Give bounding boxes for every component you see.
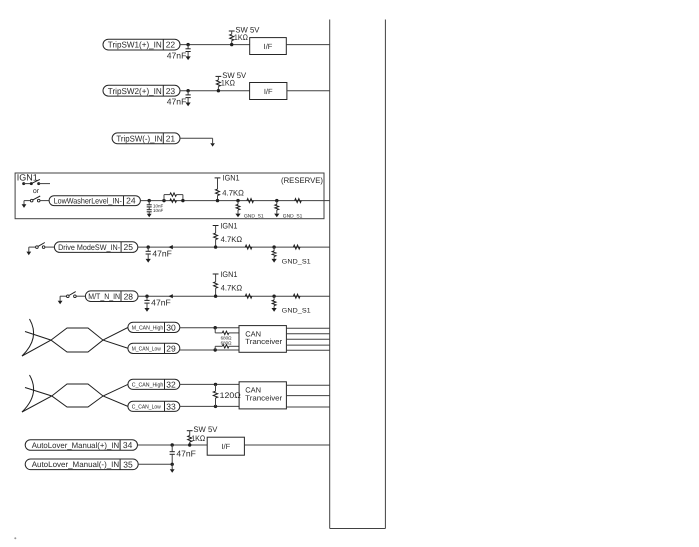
resistor R5 series — [247, 199, 254, 203]
svg-text:10nF: 10nF — [153, 208, 164, 213]
ground (S3) — [26, 247, 31, 255]
switch S1 (IGN1 alternative) — [22, 179, 50, 185]
resistor R4 pulldown GND_S1 — [235, 201, 263, 220]
op-amp U4 CAN Tranceiver — [239, 382, 286, 409]
wire U4 out 3 — [286, 406, 329, 408]
wire MTN main — [138, 295, 330, 297]
switch S3 Drive Mode — [29, 243, 55, 249]
svg-text:47nF: 47nF — [176, 449, 196, 459]
svg-text:1KΩ: 1KΩ — [234, 33, 248, 42]
node junction R14 — [272, 295, 275, 298]
wire AutoLover+ to I/F — [138, 444, 208, 446]
capacitor C5 47nF — [144, 296, 170, 312]
wire AutoLover- — [138, 463, 172, 465]
capacitor C1 47nF — [167, 45, 191, 61]
power IGN1 (row5) — [213, 221, 238, 247]
connector pin 28 M/T_N_IN — [85, 291, 138, 302]
node junction C6 bottom — [171, 463, 174, 466]
resistor R17 680 (low branch) — [215, 345, 239, 350]
wire M_CAN_Low to transceiver — [180, 349, 239, 351]
flow arrow (row5) — [168, 245, 172, 249]
node junction C6 top — [171, 443, 174, 446]
capacitor C4 47nF — [146, 247, 172, 263]
op-amp U5 I/F — [207, 437, 244, 455]
svg-text:4.7KΩ: 4.7KΩ — [221, 235, 243, 244]
svg-text:21: 21 — [166, 133, 176, 143]
svg-text:32: 32 — [166, 379, 176, 389]
wire TripSW(-) stub — [180, 138, 213, 143]
resistor R16 680 (high branch) — [215, 328, 239, 335]
wire LowWasherLevel main — [140, 200, 324, 202]
svg-text:IGN1: IGN1 — [17, 173, 38, 183]
svg-text:23: 23 — [166, 86, 176, 96]
connector pin 24 LowWasherLevel_IN- — [49, 196, 140, 206]
svg-text:30: 30 — [166, 322, 176, 332]
node junction C_high — [214, 383, 217, 386]
svg-text:1KΩ: 1KΩ — [191, 434, 205, 443]
svg-text:GND_S1: GND_S1 — [282, 308, 311, 315]
ECU connector block bottom edge — [330, 528, 386, 530]
node junction C_low — [214, 405, 217, 408]
connector pin 25 Drive ModeSW_IN- — [54, 242, 137, 253]
resistor pair parallel — [162, 193, 184, 202]
resistor R18 120 termination — [213, 384, 240, 406]
stray mark — [14, 537, 16, 539]
wire I/F5 to ECU — [244, 444, 329, 446]
svg-text:35: 35 — [123, 459, 133, 469]
wire DriveMode main — [138, 246, 330, 248]
connector pin 23 TripSW2(+)_IN — [103, 85, 180, 96]
svg-text:SW 5V: SW 5V — [193, 425, 218, 434]
svg-text:Tranceiver: Tranceiver — [245, 393, 283, 402]
connector pin 32 C_CAN_High — [128, 379, 180, 389]
svg-text:I/F: I/F — [221, 442, 230, 451]
capacitor C6 47nF — [170, 445, 196, 464]
ECU connector block right edge — [384, 20, 386, 529]
connector pin 34 AutoLover_Manual(+)_IN — [25, 440, 137, 451]
node junction R12 — [214, 295, 217, 298]
connector pin 21 TripSW(-)_IN — [112, 133, 180, 144]
svg-text:47nF: 47nF — [167, 50, 187, 60]
node junction R1 — [230, 43, 233, 46]
svg-text:33: 33 — [166, 401, 176, 411]
resistor R15 series — [293, 294, 300, 298]
wire C_CAN_High to transceiver — [180, 383, 239, 385]
op-amp U3 CAN Tranceiver — [239, 326, 286, 353]
wire U3 out 2 — [286, 333, 329, 335]
op-amp U2 I/F — [250, 83, 287, 100]
power SW 5V (row1) — [229, 25, 260, 44]
ground (S4) — [58, 296, 63, 304]
svg-text:C_CAN_High: C_CAN_High — [132, 381, 164, 388]
resistor R10 pulldown GND_S1 — [272, 247, 312, 265]
wire C_CAN_Low to transceiver — [180, 405, 239, 407]
resistor R2 1K — [221, 79, 235, 88]
svg-text:M/T_N_IN: M/T_N_IN — [88, 292, 120, 301]
op-amp U1 I/F — [250, 38, 287, 55]
node junction R10 — [272, 245, 275, 248]
connector pin 30 M_CAN_High — [128, 322, 180, 332]
svg-text:C_CAN_Low: C_CAN_Low — [132, 403, 162, 410]
wire reserve to ECU — [324, 200, 330, 202]
block frame (RESERVE) — [15, 173, 324, 219]
svg-text:TripSW1(+)_IN: TripSW1(+)_IN — [108, 40, 162, 50]
wire U4 out 1 — [286, 384, 329, 386]
net label IGN1 (box corner) — [17, 173, 38, 183]
label or — [33, 188, 40, 195]
connector pin 33 C_CAN_Low — [128, 401, 180, 411]
svg-text:M_CAN_High: M_CAN_High — [132, 324, 164, 331]
resistor R6 pulldown GND_S1 — [274, 201, 302, 220]
node junction C2 — [186, 89, 189, 92]
svg-text:LowWasherLevel_IN-: LowWasherLevel_IN- — [54, 196, 123, 205]
power SW 5V (row9) — [187, 425, 218, 445]
resistor R1 1K — [234, 33, 248, 42]
node junction R19 — [188, 443, 191, 446]
resistor R9 series — [245, 245, 252, 249]
svg-text:4.7KΩ: 4.7KΩ — [221, 284, 243, 293]
node junction C1 — [186, 43, 189, 46]
wire M_CAN_High to transceiver — [180, 327, 239, 329]
svg-text:680Ω: 680Ω — [221, 340, 233, 345]
wire TripSW1 to I/F — [180, 44, 250, 46]
wire twisted pair B (M_CAN) — [22, 328, 128, 356]
wire U3 out 4 — [286, 344, 329, 346]
svg-text:47nF: 47nF — [167, 96, 187, 106]
resistor R8 4.7K — [221, 235, 243, 244]
svg-text:1KΩ: 1KΩ — [221, 79, 235, 88]
svg-text:IGN1: IGN1 — [220, 221, 238, 230]
wire U3 out 3 — [286, 338, 329, 340]
connector pin 29 M_CAN_Low — [128, 343, 180, 353]
node junction R6 — [275, 199, 278, 202]
capacitor C2 47nF — [167, 91, 191, 107]
node junction M_high — [214, 326, 217, 329]
svg-text:TripSW(-)_IN: TripSW(-)_IN — [116, 133, 162, 143]
node junction R3 — [216, 199, 219, 202]
svg-text:Tranceiver: Tranceiver — [245, 337, 283, 346]
svg-text:(RESERVE): (RESERVE) — [281, 176, 323, 185]
svg-text:25: 25 — [124, 242, 134, 252]
node junction R4 — [236, 199, 239, 202]
svg-text:GND_S1: GND_S1 — [282, 258, 311, 265]
power IGN1 (reserve) — [215, 174, 241, 201]
ground arrow (row9) — [170, 464, 175, 473]
node junction C3 — [148, 199, 151, 202]
resistor R12 4.7K — [221, 284, 243, 293]
wire twisted pair A (M_CAN) — [25, 328, 128, 353]
svg-text:GND_S1: GND_S1 — [244, 213, 264, 219]
connector pin 35 AutoLover_Manual(-)_IN — [25, 459, 138, 470]
svg-text:Drive ModeSW_IN-: Drive ModeSW_IN- — [58, 243, 120, 252]
wire U3 out 5 — [286, 349, 329, 351]
label 680 ohm x2 — [221, 336, 233, 346]
svg-text:TripSW2(+)_IN: TripSW2(+)_IN — [108, 86, 162, 96]
svg-text:4.7KΩ: 4.7KΩ — [222, 188, 244, 197]
capacitor C3 10nF stack — [147, 201, 164, 218]
twisted pair arc (M_CAN) — [22, 319, 34, 356]
resistor R3 4.7K — [222, 188, 244, 197]
label (RESERVE) — [281, 176, 323, 185]
svg-text:47nF: 47nF — [152, 248, 172, 258]
svg-text:I/F: I/F — [264, 87, 273, 96]
svg-text:I/F: I/F — [264, 42, 273, 51]
node junction R2 — [217, 89, 220, 92]
svg-text:M_CAN_Low: M_CAN_Low — [132, 345, 162, 352]
resistor R14 pulldown GND_S1 — [272, 296, 312, 314]
node junction C5 — [145, 295, 148, 298]
wire U3 out 1 — [286, 327, 329, 329]
resistor R19 1K — [191, 434, 205, 443]
svg-text:120Ω: 120Ω — [220, 391, 241, 400]
wire U4 out 2 — [286, 395, 329, 397]
connector pin 22 TripSW1(+)_IN — [103, 39, 180, 50]
svg-text:47nF: 47nF — [151, 297, 171, 307]
flow arrow (row6) — [168, 294, 172, 298]
node junction M_low — [214, 348, 217, 351]
svg-text:29: 29 — [166, 343, 176, 353]
svg-text:34: 34 — [123, 440, 133, 450]
ground arrow (row3) — [210, 143, 215, 146]
wire I/F1 to ECU — [286, 44, 329, 46]
svg-text:GND_S1: GND_S1 — [283, 213, 303, 219]
svg-text:24: 24 — [126, 196, 136, 206]
svg-text:AutoLover_Manual(+)_IN: AutoLover_Manual(+)_IN — [32, 441, 120, 450]
ECU connector block left edge — [329, 20, 331, 529]
resistor R11 series — [293, 245, 300, 249]
power SW 5V (row2) — [216, 71, 247, 91]
svg-text:IGN1: IGN1 — [223, 174, 241, 183]
svg-text:IGN1: IGN1 — [220, 270, 238, 279]
svg-text:or: or — [33, 188, 40, 195]
twisted pair arc (C_CAN) — [22, 375, 34, 412]
wire I/F2 to ECU — [287, 90, 330, 92]
resistor R13 series — [245, 294, 252, 298]
wire TripSW2 to I/F — [180, 90, 250, 92]
svg-text:22: 22 — [166, 40, 176, 50]
node junction R8 — [214, 245, 217, 248]
ground (S2) — [22, 201, 27, 208]
resistor R7 series — [295, 199, 302, 203]
svg-text:AutoLover_Manual(-)_IN: AutoLover_Manual(-)_IN — [32, 460, 120, 469]
svg-text:28: 28 — [124, 291, 134, 301]
wire twisted pair B (C_CAN) — [22, 384, 128, 412]
wire twisted pair A (C_CAN) — [25, 384, 128, 407]
switch S2 (LowWasherLevel) — [24, 196, 49, 202]
switch S4 M/T_N — [60, 292, 85, 298]
node junction C4 — [147, 245, 150, 248]
power IGN1 (row6) — [213, 270, 238, 296]
